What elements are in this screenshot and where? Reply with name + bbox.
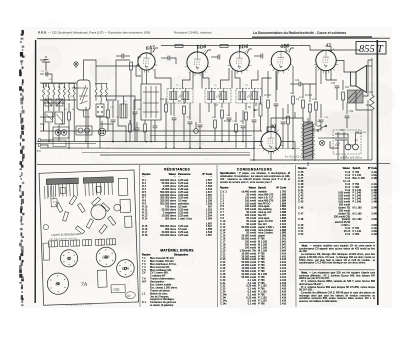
wire 42 screen [330,70,332,80]
wire coil bus [43,125,45,131]
capacitor C17 [252,120,257,122]
padder block C-P1 [45,112,53,122]
wire c5a [161,57,168,59]
IF can top view MF2 [83,177,114,196]
wire osc to bus [150,120,152,142]
wire im link [106,60,130,100]
wire r5b [214,103,216,118]
wire bus B+ bottom [250,159,372,161]
chassis tube 80 [47,273,69,295]
wire R8 up [245,103,247,110]
filter capacitors C40 C41 [335,132,347,152]
capacitor C12 [188,122,193,124]
wire 6B8 gridcap [289,48,294,53]
wire bus top B+ [161,45,310,47]
wire R1 gnd [165,112,167,148]
resistor R2 [130,62,133,70]
wire c6b up [134,100,136,110]
wire R4 dn [183,114,185,142]
node j10 [165,147,167,149]
PU terminals [37,139,42,153]
wire 80 plates [267,127,275,133]
resistor R1b [68,112,71,120]
wire R12 dn [302,108,304,122]
wire r9b2 [287,124,289,149]
wire 6D6b plate [239,46,241,53]
wire h40 60 [40,59,46,61]
wire hline 1435 [36,143,96,145]
wire 6B8 grid link [262,78,272,88]
node n5 [199,147,201,149]
wire bus chassis [37,141,263,143]
terminal box b2 [70,240,79,246]
terminal box b1 [59,240,68,246]
wire C12 v [189,103,191,120]
wire left vert d [73,101,75,142]
node j2 [85,141,87,143]
wire c15a [254,55,261,57]
chassis tube 6E8 [96,247,116,267]
capacitor C6b [133,112,138,114]
on-off switch S2 [317,125,327,145]
chassis resistor r3 [101,203,110,212]
wire R10 dn [267,108,269,131]
chassis resistor r7 [108,216,116,225]
wire T2 bot1 [208,103,210,112]
wire grid lead 6A7 [96,57,141,83]
wire box gnds2 [58,125,60,142]
trimmer C-T1 [46,114,62,121]
wire heater taps [281,142,295,162]
wire T3 top1 [235,71,240,89]
wire 80 out [270,152,272,161]
node j22 [112,141,114,143]
socket box [53,140,66,147]
resistor R4 [183,106,186,114]
resistor R2b [107,110,110,118]
terminal box b4 [95,239,104,245]
aerial coils L1 [43,84,66,102]
chassis resistor r6 [99,225,107,234]
wire 42 plate [330,46,332,52]
wire h mid long [96,96,135,100]
wire right vert 369 [367,100,369,160]
right margin rule [376,40,379,305]
wire c3w2 [124,55,130,57]
padder block C-P2 [55,112,63,124]
wire cl w4 [136,130,138,142]
wire c14b [228,103,230,116]
resistor R9b [287,116,290,124]
wire c21b2 [282,124,284,149]
scan noise [38,35,389,293]
wire dl wire [75,66,77,68]
wire xfrm top [307,118,309,122]
capacitor C1 [46,72,48,77]
resistor R14b [315,102,318,110]
terminal box b3 [82,240,91,246]
side rect 2 [120,199,130,212]
wire T1 top1 [155,69,171,89]
wire left h2 [40,123,45,125]
wire r6b [235,112,237,122]
switch contacts S1b [97,106,102,112]
wire R12 up [302,84,304,98]
capacitor C4b [111,120,116,122]
wire mid vert1 [118,100,126,142]
coil form L5 [120,104,127,118]
wire R7 dn [221,118,223,142]
left margin rule [34,40,36,303]
wire c14b2 [228,120,230,142]
wire plug wires2 [356,133,363,139]
pickup jack J1 [53,127,69,138]
wire ant series [45,83,47,87]
node j20 [150,141,152,143]
wire osc tap [134,100,141,131]
wire mid h4 [100,123,113,125]
wire c28b [320,104,322,118]
wire cap wires2 [343,152,345,160]
wire c9a [211,56,218,58]
node j16 [253,147,255,149]
wire l5 up [123,96,125,104]
wire mid bus135 [150,135,252,137]
wire T1 top2 [183,72,191,89]
wire rf sw drop [99,116,101,148]
wire c16b2 [242,128,244,142]
wire left vert c [60,101,65,124]
chassis vert rect [97,270,107,287]
capacitor C3 [122,54,124,59]
resistor R6 [220,45,228,48]
trimmer box X2 [56,99,63,106]
wire C22 in [290,83,299,85]
gang link wire [84,110,91,117]
wire cap wires [337,152,339,160]
wire sw wires [313,129,319,131]
node j1 [45,73,47,75]
wire 6A7 cathode drop [146,70,148,84]
wire top right link [310,46,360,51]
column rule 0 [139,165,142,307]
resistor R20 [129,124,132,132]
tube U4 6B8 [269,49,293,73]
trimmer box X1 [45,99,52,106]
capacitor C25 [335,86,340,88]
wire cl w2 [129,132,131,142]
capacitor C8 [172,118,177,120]
reference box 855T [356,42,386,56]
wire rf coil drop [100,101,102,104]
wire C22 out [301,66,316,84]
wire dial line [325,71,327,74]
capacitor C26 [345,116,350,118]
wire r1b up [68,103,70,112]
wire r6b2 [235,132,237,148]
wire T3 bot2 [255,103,257,106]
wire det drop [231,71,233,89]
wire c28b2 [320,122,322,131]
chassis tube 42 [60,249,78,267]
resistor R15 [342,92,345,100]
RF coils L4 [95,84,107,102]
potentiometer P1 [254,104,262,116]
tuning gang shield [77,80,90,110]
node j15 [242,141,244,143]
node j18 [275,147,277,149]
chassis resistor r4 [86,219,93,229]
wire pot up [260,96,262,104]
terminal box b5 [106,239,115,245]
wire C17 v [253,103,255,118]
wire T2 top2 [221,68,230,89]
wire c6b dn [134,114,136,142]
wire b42 bias [315,84,317,100]
wire gang top link [84,60,97,80]
wire pu link1 [41,138,53,140]
capacitor C5 [168,56,170,61]
wire c5b [170,58,176,64]
wire R7 up [221,103,223,108]
nota rule 2 [299,269,375,271]
wire r2dn [130,70,132,131]
wire bus ground [40,147,300,150]
chassis tube 6D6 [116,259,134,277]
resistor R5b [214,120,217,128]
tube U5 42 [314,48,338,73]
wire R11 dn [292,104,294,149]
coil forms top left [45,186,60,204]
wire cl w8 [154,128,156,142]
wire gang link [72,87,79,89]
wave switch S1 [96,104,104,116]
wire C12 g [189,124,191,148]
resistor R7 [221,110,224,118]
wire R1 wire [165,98,167,104]
wire 6B8 plate [285,46,287,53]
extra scan speckle [38,32,391,306]
chassis resistor r2 [92,197,101,206]
solder dots coil row [43,86,75,87]
wire C26 v [346,103,348,114]
resistor R21 [144,124,147,132]
chassis resistor r5 [75,226,84,234]
node j12 [189,147,191,149]
wire R15 up [342,80,344,90]
gang section marks [79,88,88,104]
wire C25 g [336,88,338,100]
wire l2 [48,74,52,83]
capacitor C38b [135,128,140,130]
tube U3 6D6 [228,50,252,74]
wire cl w5 [144,120,146,124]
capacitor C15 [261,54,263,59]
wire c16b [242,110,244,124]
capacitor C16b [241,126,246,128]
wire 42 cath [326,71,337,80]
wire spk gnd [356,92,372,110]
wire r2b dn [107,118,109,131]
capacitor C21b [281,122,286,124]
wire ht bus up [294,112,296,118]
wire pot dn [260,116,262,131]
speaker LS [351,66,367,93]
wire l1 [40,73,44,75]
extra labels [41,71,367,158]
capacitor C13 [198,125,203,127]
wire ht left [254,142,261,161]
capacitor C14b [227,118,232,120]
chassis mid tube [91,205,107,221]
wire gang drop [85,107,87,142]
node j11 [173,147,175,149]
wire shield drop2 [87,110,89,148]
aerial coils L2 [68,84,75,102]
node n4 [146,141,148,143]
resistor R11 [292,96,295,104]
wire C13 g [199,127,201,148]
wire e1up [195,122,197,129]
node n6 [253,159,255,161]
wire R11 up [292,66,294,94]
wire socket up [101,121,103,128]
side rect 3 [125,216,132,227]
wire C13 v [199,103,201,123]
resistor R3 [175,45,183,48]
chassis small part [51,199,57,207]
nota rule 1 [299,241,375,243]
power transformer T5 [302,122,315,160]
wire C20 v [275,71,277,102]
chassis layout drawing [39,170,139,305]
dial lamp DL [74,62,78,66]
column rule 2 [295,165,298,307]
wire cl w7 [154,120,156,126]
wire 6A7 gridcap [153,48,158,52]
paper page background [20,27,392,308]
wire C26 g [346,118,348,128]
wire r9b [287,104,289,114]
node j3 [112,141,114,143]
wire mid h3 [96,116,108,118]
wire 80 top [271,118,303,132]
wire r5b2 [214,128,216,142]
wire 6D6 plate [197,46,199,54]
side rect 1 [118,178,128,195]
wire c3w [116,55,122,57]
chassis left small circle [43,224,48,229]
wire cl w3 [136,122,138,128]
wire T1 bot1 [170,103,172,115]
wire c4b dn [112,122,114,142]
node j19 [292,148,294,150]
IF transformer T2 [205,89,231,104]
node j21 [125,141,127,143]
node j23 [68,147,70,149]
wire left vert a [43,101,45,131]
wire 42 to opt [336,61,350,73]
wire pu link2 [41,145,48,148]
capacitor C28b [319,120,324,122]
wire left low [40,116,44,118]
wire bus heater [100,154,250,156]
wire C17 g [253,122,255,148]
node j13 [199,147,201,149]
node j17 [267,130,269,132]
node n3 [285,45,287,47]
resistor R8 [245,112,248,120]
wire r2b up [107,101,109,110]
wire 6B8 pins dn [276,70,278,90]
wire C8 dn [173,120,175,148]
wire R4 up [183,98,185,104]
capacitor C39b [153,126,158,128]
capacitor C22 [299,82,301,87]
valve socket V7 [98,128,106,136]
wire cl w1 [129,120,131,124]
column rule 1 [216,165,219,307]
wire box gnds [48,123,50,142]
tables separator rule [37,164,390,165]
antenna [42,57,50,71]
wire 6D6b gridcap [247,49,252,54]
IF transformer T1 [167,89,193,104]
wire ant drop [45,84,47,87]
wire lamp wire [326,137,335,139]
wire left mid [40,99,76,101]
wire 6D6 gridcap [205,50,211,55]
wire left top [40,82,77,84]
wire R10 up [267,71,269,98]
resistor R10 [267,100,270,108]
wire coil gnd 2 [58,101,60,111]
node n2 [239,45,241,47]
IF transformer T3 [236,89,262,104]
chassis left rect [43,243,50,260]
component value labels [160,80,374,147]
tube U1 6A7 [136,51,157,73]
mains plug Secteur [345,139,358,150]
wire 6A7 osc grid [136,66,141,76]
wire 6A7 pins dn [141,69,143,84]
wire xfrm bot [307,162,309,166]
resistor R6b [235,124,238,132]
wire C20 g [275,106,277,148]
chassis box C50 [111,284,125,292]
resistor R12 [302,100,305,108]
wire coil gnd 1 [48,101,50,111]
wire R13 up [309,84,311,102]
wire cl w6 [144,132,146,142]
wire left h1 [44,102,64,104]
tube U2 6D6 [185,50,210,76]
mains filter box [333,130,361,154]
header rule bold right [252,36,372,38]
wire r1b dn [68,120,70,148]
electrolytic E1 [194,129,199,134]
wire c4b up [112,101,114,118]
wire det out [261,88,263,96]
wire R8 dn [245,120,247,148]
wire r14b2 [315,110,317,126]
field coil 300 ohms [370,58,374,160]
chassis resistor r9 [56,203,63,213]
chassis oval [125,292,135,299]
resistor R13 [309,104,312,112]
wire spk top link [367,65,373,67]
wire left vert b [44,101,54,117]
